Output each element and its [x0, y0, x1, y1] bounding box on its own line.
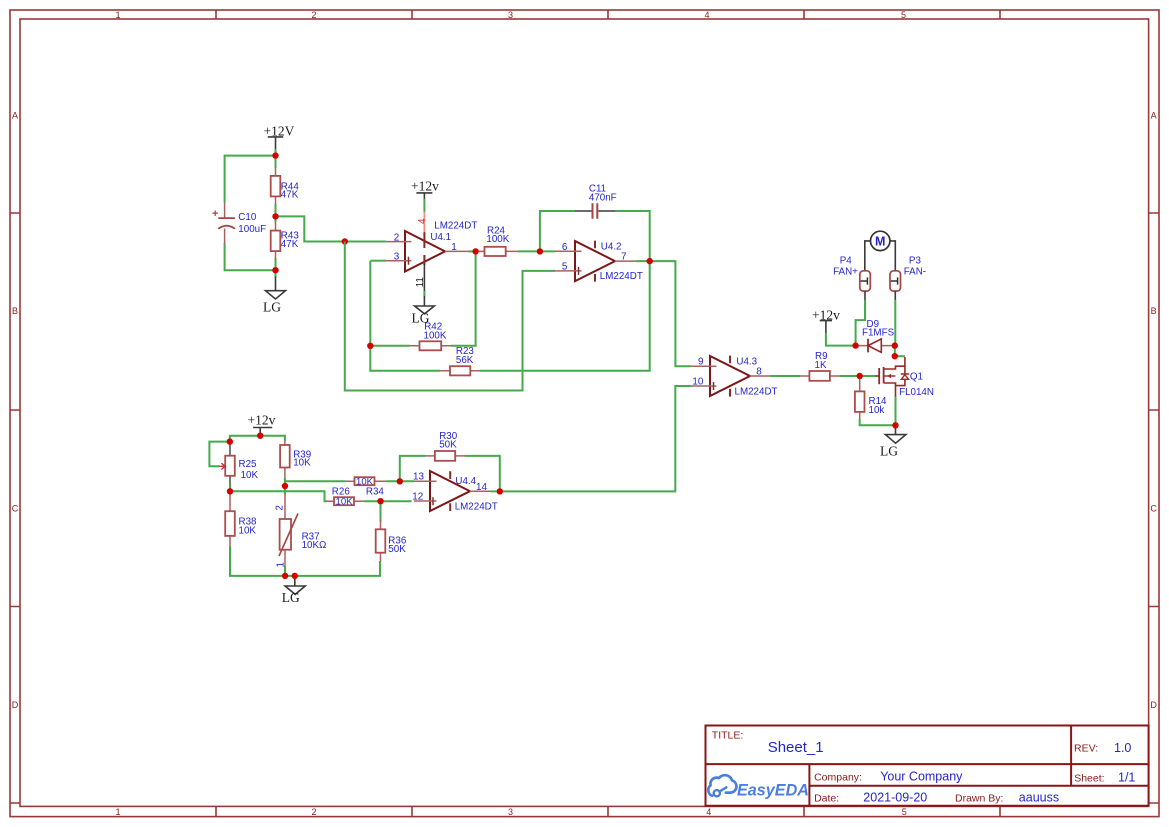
wire [230, 546, 380, 576]
wire [285, 480, 346, 482]
wire [480, 261, 650, 371]
wire [469, 250, 477, 252]
capacitor C11 [575, 183, 617, 218]
wire [380, 501, 382, 521]
svg-text:56K: 56K [456, 355, 474, 366]
wire [345, 242, 555, 391]
svg-text:12: 12 [412, 491, 423, 502]
svg-text:LG: LG [880, 443, 898, 458]
resistor R42 [410, 321, 452, 350]
svg-text:5: 5 [902, 807, 907, 817]
connector P3 FAN- [890, 256, 926, 301]
svg-text:47K: 47K [281, 190, 299, 201]
wire [465, 456, 500, 492]
wire [856, 300, 865, 346]
svg-text:7: 7 [621, 251, 627, 262]
wire [230, 436, 285, 442]
svg-text:10KΩ: 10KΩ [302, 540, 327, 551]
ground LG (C10/R43) [263, 277, 286, 315]
wire [276, 216, 386, 241]
svg-text:14: 14 [476, 482, 487, 493]
wire [770, 375, 800, 377]
svg-text:A: A [12, 110, 18, 120]
node junction dots right [857, 373, 863, 379]
op-amp U4.4 [412, 471, 497, 513]
wire [229, 483, 231, 491]
svg-text:Sheet:: Sheet: [1074, 772, 1104, 784]
svg-text:10k: 10k [869, 405, 885, 416]
svg-text:U4.1: U4.1 [430, 232, 451, 243]
potentiometer R25 [219, 442, 259, 484]
svg-text:P3: P3 [909, 256, 922, 267]
resistor R24 [476, 225, 519, 256]
svg-text:B: B [1151, 306, 1157, 316]
resistor R44 [271, 167, 300, 206]
resistor R38 [225, 491, 257, 547]
wire [895, 355, 905, 357]
svg-text:B: B [12, 306, 18, 316]
svg-text:Company:: Company: [814, 771, 862, 783]
svg-text:5: 5 [901, 10, 906, 20]
svg-text:50K: 50K [388, 544, 406, 555]
svg-text:1/1: 1/1 [1118, 771, 1135, 785]
thermistor R37 [274, 494, 326, 567]
svg-text:aauuss: aauuss [1019, 791, 1059, 805]
op-amp U4.1 pin11 [415, 255, 426, 292]
svg-text:D: D [12, 700, 19, 710]
svg-text:4: 4 [706, 807, 711, 817]
svg-text:100K: 100K [424, 331, 447, 342]
wire [615, 211, 650, 261]
svg-text:D: D [1150, 700, 1157, 710]
svg-text:3: 3 [508, 10, 513, 20]
resistor R43 [271, 222, 300, 260]
svg-text:Drawn By:: Drawn By: [955, 792, 1003, 804]
svg-text:2021-09-20: 2021-09-20 [863, 791, 927, 805]
wire [423, 291, 425, 297]
svg-text:5: 5 [562, 262, 568, 273]
svg-text:F1MFS: F1MFS [862, 328, 895, 339]
svg-text:10K: 10K [239, 526, 257, 537]
svg-text:1: 1 [115, 807, 120, 817]
svg-text:P4: P4 [840, 256, 853, 267]
power +12v (U4.1) [411, 178, 439, 199]
wire [230, 491, 327, 501]
svg-text:Your Company: Your Company [880, 770, 963, 784]
svg-text:2: 2 [311, 807, 316, 817]
svg-text:1.0: 1.0 [1114, 741, 1131, 755]
svg-text:9: 9 [698, 357, 704, 368]
svg-text:+12v: +12v [411, 178, 439, 193]
wire [370, 260, 386, 262]
svg-text:C10: C10 [238, 212, 257, 223]
svg-text:2: 2 [394, 232, 400, 243]
wire [894, 300, 896, 346]
svg-text:11: 11 [415, 277, 426, 288]
wire [209, 442, 229, 467]
svg-text:TITLE:: TITLE: [712, 730, 744, 742]
svg-text:10K: 10K [241, 470, 259, 481]
svg-text:LM224DT: LM224DT [600, 271, 643, 282]
svg-text:10K: 10K [336, 497, 354, 508]
svg-text:1: 1 [451, 242, 457, 253]
svg-text:A: A [1151, 110, 1157, 120]
svg-text:REV:: REV: [1074, 743, 1098, 755]
wire [840, 375, 876, 377]
node junction U4.2 out [647, 258, 653, 264]
svg-text:FAN+: FAN+ [833, 267, 858, 278]
svg-text:R26: R26 [332, 486, 351, 497]
svg-text:FL014N: FL014N [899, 387, 934, 398]
connector P4 FAN+ [833, 256, 870, 301]
svg-text:10: 10 [692, 377, 703, 388]
wire [275, 149, 277, 168]
wire [225, 243, 276, 270]
wire [540, 211, 575, 251]
svg-text:Q1: Q1 [910, 372, 923, 383]
wire [894, 346, 896, 357]
svg-text:M: M [875, 234, 885, 248]
svg-text:+12V: +12V [264, 123, 295, 138]
EasyEDA logo [708, 775, 809, 799]
svg-text:C: C [1150, 503, 1157, 513]
op-amp U4.3 [690, 356, 777, 398]
diode D9 [856, 319, 895, 352]
svg-text:+12v: +12v [248, 412, 276, 427]
svg-text:LG: LG [282, 590, 300, 605]
resistor R39 [280, 440, 311, 480]
ground LG (bottom-left) [282, 576, 305, 605]
wire [275, 258, 277, 278]
ground LG (Q1 source) [880, 425, 906, 458]
wire (R30 loop) [400, 456, 426, 481]
svg-text:U4.3: U4.3 [736, 357, 757, 368]
svg-text:LM224DT: LM224DT [434, 220, 477, 231]
wire [284, 478, 286, 495]
node junction dots bottom-left [257, 433, 263, 439]
resistor R9 [800, 351, 840, 381]
wire [826, 333, 856, 346]
wire [364, 500, 411, 502]
svg-text:4: 4 [704, 10, 709, 20]
power +12v (bottom-left) [248, 412, 276, 433]
resistor R26 [326, 486, 365, 507]
capacitor C10 [213, 202, 267, 243]
svg-text:Sheet_1: Sheet_1 [768, 739, 824, 756]
wire [423, 199, 425, 212]
svg-text:4: 4 [417, 218, 428, 224]
resistor R30 [425, 431, 465, 461]
node junction dots U4.1 area [367, 343, 373, 349]
motor M [865, 231, 896, 271]
svg-text:R25: R25 [239, 459, 258, 470]
ground LG (U4.1 pin11) [412, 296, 435, 325]
resistor R14 [855, 376, 887, 420]
node junction dots top-left [272, 152, 278, 158]
wire [451, 251, 476, 345]
svg-text:1: 1 [115, 10, 120, 20]
svg-text:FAN-: FAN- [904, 267, 926, 278]
svg-text:LM224DT: LM224DT [735, 387, 778, 398]
wire [636, 261, 690, 366]
resistor R23 [440, 346, 480, 375]
svg-text:6: 6 [562, 242, 568, 253]
resistor R34 [346, 477, 387, 498]
wire [370, 345, 410, 347]
wire [895, 396, 897, 425]
wire [491, 386, 691, 491]
svg-text:2: 2 [274, 505, 285, 511]
wire [370, 261, 440, 371]
svg-text:13: 13 [413, 472, 424, 483]
svg-text:C: C [12, 503, 19, 513]
wire [275, 204, 277, 223]
svg-text:Date:: Date: [814, 792, 839, 804]
svg-text:47K: 47K [281, 239, 299, 250]
svg-text:100K: 100K [486, 234, 509, 245]
svg-text:R34: R34 [366, 487, 385, 498]
svg-text:470nF: 470nF [589, 193, 617, 204]
wire [386, 480, 414, 482]
wire [259, 433, 261, 436]
wire [860, 419, 896, 425]
wire [225, 156, 276, 203]
svg-text:U4.4: U4.4 [455, 476, 476, 487]
svg-text:50K: 50K [439, 440, 457, 451]
wire [284, 566, 286, 576]
svg-text:LM224DT: LM224DT [455, 502, 498, 513]
svg-text:3: 3 [508, 807, 513, 817]
wire [518, 250, 555, 252]
op-amp U4.1 pin4 [417, 212, 428, 249]
svg-text:100uF: 100uF [238, 224, 266, 235]
svg-text:2: 2 [311, 10, 316, 20]
svg-text:10K: 10K [293, 458, 311, 469]
svg-text:3: 3 [394, 252, 400, 263]
svg-text:8: 8 [756, 366, 762, 377]
svg-text:LG: LG [263, 299, 281, 314]
resistor R36 [376, 521, 407, 562]
svg-text:EasyEDA: EasyEDA [737, 782, 809, 800]
power +12v (right) [812, 307, 840, 333]
power +12V [264, 123, 295, 149]
svg-text:1K: 1K [815, 360, 827, 371]
op-amp U4.1 [386, 220, 477, 271]
transistor Q1 (NMOS FL014N) [875, 357, 934, 398]
svg-text:U4.2: U4.2 [601, 242, 622, 253]
op-amp U4.2 [555, 241, 643, 283]
